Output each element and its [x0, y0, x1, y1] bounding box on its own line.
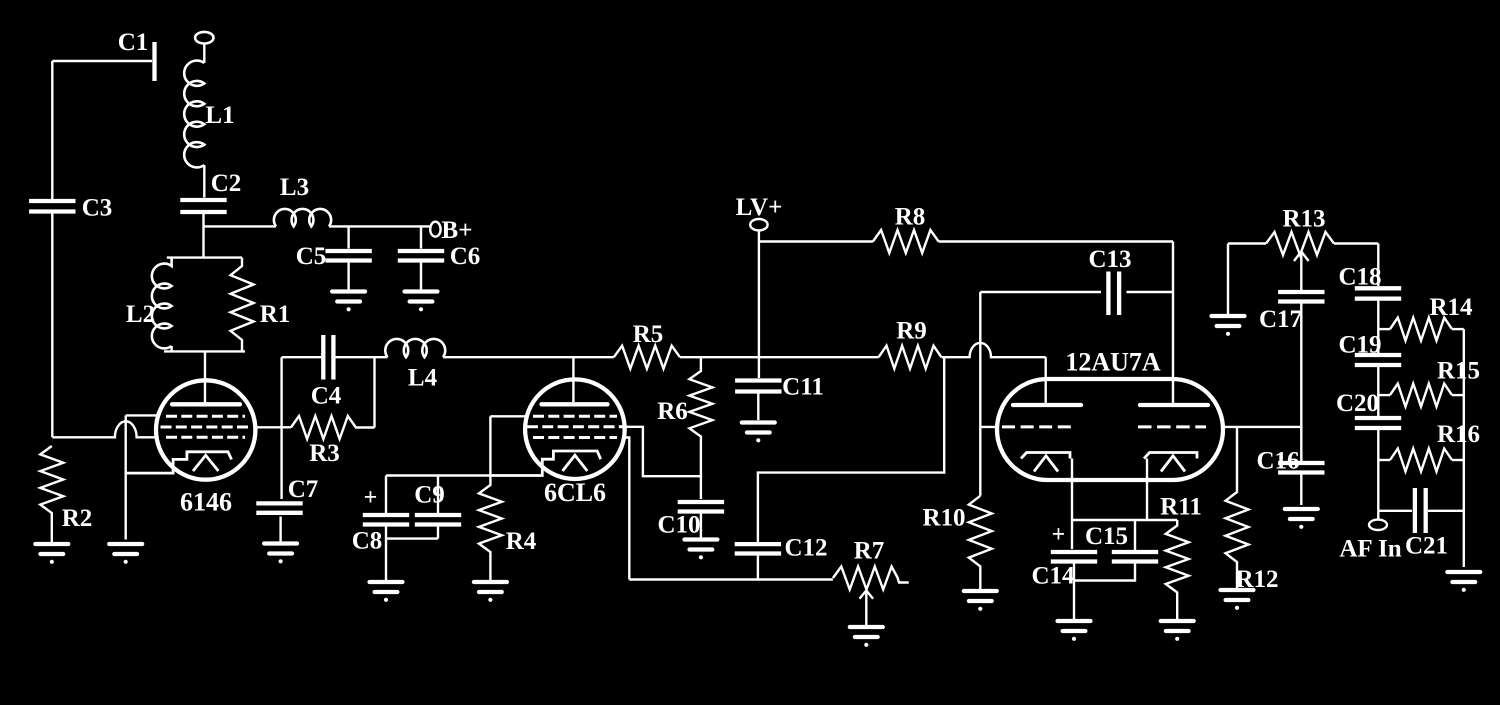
capacitor C11 — [735, 381, 781, 392]
svg-text:C4: C4 — [311, 383, 342, 410]
label C11 — [782, 374, 824, 401]
tube 6146 grid 1 — [166, 415, 245, 418]
wire — [1378, 394, 1390, 396]
svg-text:C5: C5 — [296, 243, 327, 270]
wire — [1463, 329, 1465, 567]
label R4 — [506, 528, 537, 555]
label 6146 — [180, 488, 232, 517]
wire — [282, 356, 322, 358]
wire — [124, 415, 126, 539]
wire — [758, 230, 760, 378]
label LV+ — [736, 194, 783, 221]
resistor R5 — [614, 346, 680, 369]
capacitor C13 — [1108, 272, 1119, 316]
tube 6146 heater — [193, 455, 218, 471]
svg-text:LV+: LV+ — [736, 194, 783, 221]
label R15 — [1437, 358, 1480, 385]
svg-text:R1: R1 — [260, 301, 291, 328]
label C5 — [296, 243, 327, 270]
label C14 — [1031, 563, 1075, 590]
wire — [437, 476, 439, 514]
tube 6CL6 cathode — [490, 451, 600, 476]
wire — [1044, 357, 1046, 403]
tube 6CL6 heater — [563, 455, 588, 471]
svg-text:C8: C8 — [352, 528, 383, 555]
tube 6146 cathode — [126, 452, 231, 473]
label R3 — [309, 440, 340, 467]
tube 12AU7A cathode 2 — [1144, 453, 1197, 459]
wire — [1228, 242, 1266, 244]
wire — [1377, 511, 1379, 520]
label R1 — [260, 301, 291, 328]
svg-text:R11: R11 — [1160, 494, 1202, 521]
wire — [1378, 510, 1412, 512]
label C10 — [657, 512, 700, 539]
wire — [386, 527, 438, 539]
wire — [1377, 430, 1379, 511]
wire — [386, 474, 490, 476]
tube 12AU7A envelope — [997, 379, 1223, 480]
wire — [941, 343, 1045, 357]
ground — [1447, 572, 1480, 592]
wire — [490, 415, 527, 417]
svg-text:C10: C10 — [657, 512, 700, 539]
wire — [1334, 242, 1378, 244]
svg-text:12AU7A: 12AU7A — [1065, 348, 1161, 377]
wire — [680, 356, 879, 358]
label C12 — [784, 535, 827, 562]
inductor L1 — [184, 61, 204, 168]
wire — [939, 240, 1173, 242]
label C13 — [1088, 246, 1131, 273]
wire — [203, 44, 205, 64]
svg-text:R14: R14 — [1429, 294, 1473, 321]
label AF In — [1339, 536, 1401, 563]
wire — [624, 438, 629, 580]
label C15 — [1085, 523, 1128, 550]
label C8 — [352, 528, 383, 555]
wire — [1073, 564, 1075, 620]
svg-text:C19: C19 — [1338, 332, 1381, 359]
tube 6146 grid 3 — [166, 436, 245, 439]
wire — [1074, 564, 1135, 581]
terminal LV+ — [750, 219, 767, 230]
label R13 — [1282, 206, 1325, 233]
potentiometer R7 wiper — [860, 591, 874, 626]
tube 6146 envelope — [156, 380, 255, 479]
wire — [572, 357, 574, 402]
svg-text:R10: R10 — [922, 505, 965, 532]
inductor L3 — [274, 209, 331, 226]
wire — [204, 225, 277, 227]
wire — [203, 165, 205, 198]
resistor R11 — [1166, 520, 1189, 619]
svg-text:C13: C13 — [1088, 246, 1131, 273]
wire — [336, 356, 388, 358]
terminal AF In — [1369, 520, 1387, 530]
wire — [1223, 426, 1303, 428]
capacitor C8 — [363, 515, 409, 525]
capacitor C9 — [415, 515, 461, 525]
resistor R3 — [291, 416, 375, 439]
wire — [1452, 394, 1464, 396]
resistor R1 — [231, 258, 254, 352]
capacitor C10 — [678, 502, 724, 512]
label L3 — [280, 174, 309, 201]
label L1 — [205, 102, 234, 129]
svg-text:R8: R8 — [895, 204, 926, 231]
wire — [1452, 328, 1464, 330]
svg-text:R2: R2 — [62, 505, 93, 532]
svg-text:C7: C7 — [288, 476, 319, 503]
wire — [1378, 328, 1390, 330]
ground — [964, 591, 997, 611]
svg-text:R5: R5 — [633, 321, 664, 348]
tube 12AU7A plate 1 — [1013, 403, 1081, 407]
wire — [758, 357, 944, 542]
label C1 — [118, 29, 149, 56]
svg-text:C17: C17 — [1259, 306, 1302, 333]
ground — [850, 627, 883, 647]
capacitor C18 — [1355, 288, 1401, 298]
resistor R13 — [1266, 232, 1334, 255]
ground — [742, 423, 775, 443]
label R2 — [62, 505, 93, 532]
inductor L4 — [385, 339, 445, 357]
wire — [385, 527, 387, 581]
svg-text:C9: C9 — [414, 482, 445, 509]
capacitor C14 — [1051, 552, 1097, 562]
svg-text:R6: R6 — [657, 398, 688, 425]
svg-text:6CL6: 6CL6 — [544, 478, 606, 507]
wire — [164, 350, 245, 352]
label C2 — [211, 170, 242, 197]
svg-text:B+: B+ — [442, 217, 473, 244]
label 6CL6 — [544, 478, 606, 507]
tube 6146 grid 2 — [161, 426, 252, 429]
wire — [1134, 520, 1136, 550]
label R11 — [1160, 494, 1202, 521]
ground — [264, 544, 297, 564]
tube 12AU7A grid 1 — [1002, 425, 1072, 428]
svg-text:R15: R15 — [1437, 358, 1480, 385]
wire — [329, 225, 430, 227]
wire — [385, 476, 387, 514]
ground — [684, 540, 717, 560]
terminal — [195, 32, 213, 44]
wire — [280, 357, 282, 499]
capacitor C5 — [325, 251, 371, 261]
tube 12AU7A grid 2 — [1138, 425, 1206, 428]
wire — [1227, 244, 1229, 315]
wire — [420, 263, 422, 290]
label R9 — [896, 318, 927, 345]
resistor R4 — [479, 476, 502, 581]
ground — [332, 292, 365, 312]
svg-text:L4: L4 — [408, 365, 438, 392]
label C16 — [1256, 448, 1299, 475]
wire — [126, 414, 159, 416]
svg-text:R13: R13 — [1282, 206, 1325, 233]
wire — [167, 256, 242, 258]
capacitor C3 — [29, 201, 75, 212]
wire — [759, 240, 873, 242]
capacitor C21 — [1415, 488, 1426, 533]
wire — [489, 416, 491, 475]
wire — [51, 61, 53, 199]
label R8 — [895, 204, 926, 231]
svg-text:C14: C14 — [1031, 563, 1075, 590]
svg-text:C1: C1 — [118, 29, 149, 56]
tube 12AU7A heater 1 — [1034, 456, 1058, 472]
svg-text:C12: C12 — [784, 535, 827, 562]
label R12 — [1235, 566, 1278, 593]
wire — [1452, 459, 1464, 461]
tube 12AU7A heater 2 — [1161, 456, 1185, 472]
terminal B+ — [430, 222, 440, 237]
svg-text:AF In: AF In — [1339, 536, 1401, 563]
wire — [980, 291, 1101, 293]
svg-text:6146: 6146 — [180, 488, 232, 517]
capacitor C17 — [1278, 292, 1324, 302]
capacitor C6 — [398, 251, 444, 261]
svg-text:C2: C2 — [211, 170, 242, 197]
svg-text:L2: L2 — [126, 301, 155, 328]
label C7 — [288, 476, 319, 503]
wire — [347, 263, 349, 290]
resistor R12 — [1226, 427, 1249, 588]
wire — [202, 214, 204, 258]
wire — [979, 292, 981, 496]
wire — [1146, 459, 1148, 521]
wire — [1172, 242, 1174, 404]
svg-text:C18: C18 — [1338, 264, 1381, 291]
wire — [347, 226, 349, 248]
svg-text:R7: R7 — [854, 538, 885, 565]
tube 6CL6 grid 2 — [527, 425, 623, 428]
ground — [1161, 621, 1194, 641]
ground — [35, 544, 68, 564]
label 12AU7A — [1065, 348, 1161, 377]
wire — [170, 346, 172, 351]
capacitor C15 — [1112, 552, 1158, 562]
wire — [443, 356, 614, 358]
label L4 — [408, 365, 438, 392]
wire — [373, 357, 375, 427]
wire — [700, 514, 702, 539]
wire — [204, 351, 206, 403]
ground — [109, 544, 142, 564]
label +C14 — [1052, 522, 1066, 548]
label C18 — [1338, 264, 1381, 291]
wire — [1300, 304, 1302, 462]
wire — [1072, 519, 1177, 521]
label R5 — [633, 321, 664, 348]
wire — [1377, 301, 1379, 353]
ground — [1212, 316, 1245, 336]
ground — [1221, 590, 1254, 610]
resistor R7 — [833, 567, 909, 590]
ground — [474, 582, 507, 602]
ground — [1285, 509, 1318, 529]
ground — [370, 582, 403, 602]
label +C8 — [364, 485, 378, 511]
ground — [405, 292, 438, 312]
capacitor C19 — [1355, 355, 1401, 365]
wire — [52, 60, 152, 62]
wire — [1127, 291, 1174, 293]
svg-text:R3: R3 — [309, 440, 340, 467]
label R10 — [922, 505, 965, 532]
label L2 — [126, 301, 155, 328]
wire — [1071, 459, 1073, 550]
resistor R10 — [969, 496, 992, 589]
svg-text:C20: C20 — [1336, 390, 1379, 417]
wire — [980, 426, 997, 428]
capacitor C2 — [180, 200, 226, 212]
label C19 — [1338, 332, 1381, 359]
svg-text:L3: L3 — [280, 174, 309, 201]
capacitor C12 — [735, 544, 781, 553]
resistor R9 — [879, 346, 942, 369]
svg-text:R4: R4 — [506, 528, 537, 555]
svg-text:R9: R9 — [896, 318, 927, 345]
svg-text:R16: R16 — [1437, 421, 1480, 448]
tube 12AU7A plate 2 — [1140, 403, 1208, 407]
tube 6CL6 grid 3 — [533, 436, 617, 439]
wire — [1300, 475, 1302, 506]
label C6 — [450, 243, 481, 270]
svg-text:C21: C21 — [1405, 533, 1448, 560]
svg-text:+: + — [364, 485, 378, 511]
capacitor C7 — [256, 503, 302, 512]
wire — [1377, 367, 1379, 416]
label C17 — [1259, 306, 1302, 333]
label R6 — [657, 398, 688, 425]
resistor R16 — [1390, 449, 1452, 472]
inductor L2 — [152, 258, 172, 349]
tube 6CL6 envelope — [525, 379, 625, 479]
resistor R6 — [689, 357, 712, 499]
wire — [52, 421, 157, 437]
svg-text:C6: C6 — [450, 243, 481, 270]
label R16 — [1437, 421, 1480, 448]
resistor R14 — [1390, 318, 1452, 341]
resistor R8 — [873, 230, 939, 253]
wire — [255, 426, 291, 428]
label R14 — [1429, 294, 1473, 321]
wire — [51, 214, 53, 438]
label C20 — [1336, 390, 1379, 417]
wire — [757, 394, 759, 421]
svg-text:C3: C3 — [82, 195, 113, 222]
resistor R2 — [40, 446, 63, 542]
potentiometer R13 wiper — [1294, 252, 1309, 291]
wire — [420, 226, 422, 248]
label C9 — [414, 482, 445, 509]
tube 12AU7A cathode 1 — [1021, 453, 1070, 459]
ground — [1058, 621, 1091, 641]
label C3 — [82, 195, 113, 222]
svg-text:C11: C11 — [782, 374, 824, 401]
resistor R15 — [1390, 384, 1452, 407]
capacitor C4 — [323, 335, 333, 380]
wire — [279, 517, 281, 543]
tube 6146 plate — [172, 402, 240, 406]
wire — [757, 556, 759, 580]
svg-text:C16: C16 — [1256, 448, 1299, 475]
wire — [1428, 510, 1464, 512]
wire — [1378, 459, 1390, 461]
svg-text:+: + — [1052, 522, 1066, 548]
wire — [629, 578, 833, 580]
svg-text:C15: C15 — [1085, 523, 1128, 550]
label C4 — [311, 383, 342, 410]
capacitor C20 — [1355, 418, 1401, 428]
label B+ — [442, 217, 473, 244]
capacitor C16 — [1278, 463, 1324, 473]
tube 6CL6 grid 1 — [533, 415, 617, 418]
svg-text:L1: L1 — [205, 102, 234, 129]
wire — [1377, 244, 1379, 287]
label R7 — [854, 538, 885, 565]
wire — [625, 427, 701, 476]
capacitor C1 — [152, 42, 156, 81]
tube 6CL6 plate — [542, 402, 608, 406]
label C21 — [1405, 533, 1448, 560]
